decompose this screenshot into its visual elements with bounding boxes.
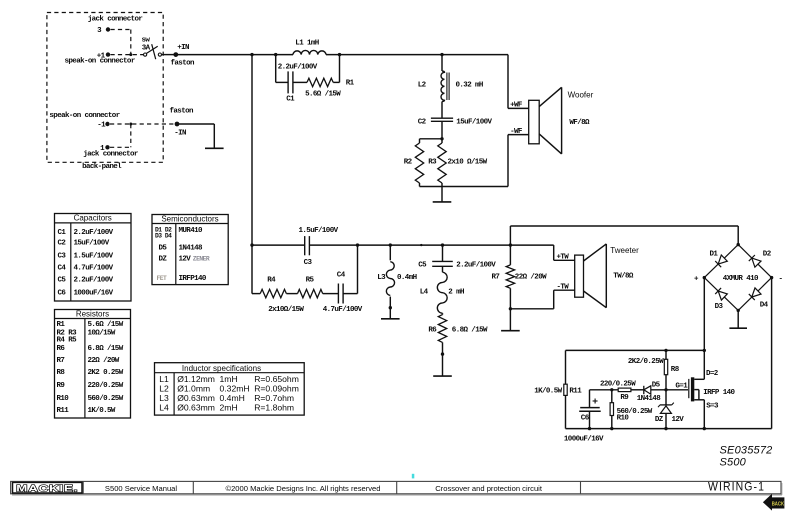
svg-text:SE035572: SE035572 bbox=[720, 444, 773, 456]
svg-text:R11: R11 bbox=[57, 407, 70, 415]
svg-text:R4: R4 bbox=[267, 277, 276, 285]
svg-text:-WF: -WF bbox=[510, 128, 523, 136]
svg-text:speak-on connector: speak-on connector bbox=[65, 58, 135, 66]
svg-text:MACKIE.: MACKIE. bbox=[16, 484, 78, 495]
svg-text:IRFP 140: IRFP 140 bbox=[703, 389, 735, 397]
svg-text:-TW: -TW bbox=[557, 283, 570, 291]
svg-text:MUR410: MUR410 bbox=[179, 227, 204, 235]
svg-text:G=1: G=1 bbox=[675, 383, 688, 391]
svg-text:L1 1mH: L1 1mH bbox=[295, 40, 319, 48]
svg-text:C5: C5 bbox=[418, 262, 427, 270]
svg-text:0.32 mH: 0.32 mH bbox=[456, 82, 483, 90]
svg-text:+IN: +IN bbox=[177, 44, 189, 52]
svg-text:R7: R7 bbox=[57, 357, 65, 365]
svg-text:jack connector: jack connector bbox=[83, 150, 138, 158]
svg-text:2x10Ω/15W: 2x10Ω/15W bbox=[268, 306, 304, 314]
svg-text:C3: C3 bbox=[304, 259, 313, 267]
svg-text:-: - bbox=[779, 275, 783, 283]
svg-text:R5: R5 bbox=[306, 277, 315, 285]
svg-text:Crossover and protection circu: Crossover and protection circuit bbox=[435, 484, 543, 493]
svg-text:DZ: DZ bbox=[159, 256, 168, 264]
svg-text:2x10 Ω/15W: 2x10 Ω/15W bbox=[448, 159, 488, 167]
svg-text:C2: C2 bbox=[58, 240, 67, 248]
svg-text:C3: C3 bbox=[58, 253, 67, 261]
svg-text:0.4mH: 0.4mH bbox=[397, 274, 417, 282]
svg-text:L4: L4 bbox=[159, 402, 169, 412]
svg-text:2K2/0.25W: 2K2/0.25W bbox=[628, 358, 664, 366]
svg-text:3A: 3A bbox=[142, 44, 151, 52]
svg-text:WF/8Ω: WF/8Ω bbox=[569, 119, 590, 127]
svg-text:C4: C4 bbox=[337, 272, 346, 280]
svg-text:2 mH: 2 mH bbox=[448, 289, 464, 297]
svg-text:R9: R9 bbox=[620, 394, 629, 402]
svg-text:R=1.8ohm: R=1.8ohm bbox=[254, 402, 294, 412]
svg-text:1N4148: 1N4148 bbox=[637, 395, 662, 403]
svg-text:C2: C2 bbox=[418, 118, 427, 126]
svg-text:BACK: BACK bbox=[772, 501, 785, 507]
svg-text:faston: faston bbox=[171, 59, 196, 67]
svg-text:S=3: S=3 bbox=[706, 402, 719, 410]
svg-text:Woofer: Woofer bbox=[568, 91, 594, 100]
svg-text:-IN: -IN bbox=[174, 130, 186, 138]
svg-text:Tweeter: Tweeter bbox=[610, 246, 639, 255]
svg-text:C6: C6 bbox=[581, 414, 590, 422]
svg-text:D1: D1 bbox=[710, 251, 719, 259]
svg-text:C6: C6 bbox=[58, 289, 67, 297]
svg-text:L2: L2 bbox=[159, 383, 169, 393]
svg-text:Ø0.63mm: Ø0.63mm bbox=[177, 402, 215, 412]
svg-text:Inductor specifications: Inductor specifications bbox=[182, 364, 261, 373]
svg-text:R4 R5: R4 R5 bbox=[57, 336, 78, 344]
svg-text:560/0.25W: 560/0.25W bbox=[88, 395, 124, 403]
svg-text:4XMUR 410: 4XMUR 410 bbox=[723, 275, 759, 283]
svg-text:-1: -1 bbox=[97, 122, 106, 130]
svg-text:R7: R7 bbox=[491, 273, 499, 281]
svg-text:Semiconductors: Semiconductors bbox=[161, 215, 218, 224]
svg-text:1000uF/16V: 1000uF/16V bbox=[74, 289, 114, 297]
svg-text:R3: R3 bbox=[428, 159, 437, 167]
svg-text:220/0.25W: 220/0.25W bbox=[600, 381, 636, 389]
svg-text:12V: 12V bbox=[672, 416, 685, 424]
svg-text:D5: D5 bbox=[159, 244, 168, 252]
svg-text:FET: FET bbox=[157, 275, 168, 282]
svg-text:1.5uF/100V: 1.5uF/100V bbox=[74, 253, 114, 261]
svg-text:D3 D4: D3 D4 bbox=[155, 232, 172, 239]
svg-text:speak-on connector: speak-on connector bbox=[49, 112, 119, 120]
svg-text:D=2: D=2 bbox=[706, 370, 719, 378]
svg-text:D3: D3 bbox=[715, 303, 724, 311]
svg-text:TW/8Ω: TW/8Ω bbox=[613, 272, 634, 280]
svg-text:faston: faston bbox=[170, 108, 195, 116]
svg-text:R8: R8 bbox=[57, 369, 66, 377]
svg-text:220/0.25W: 220/0.25W bbox=[88, 382, 124, 390]
svg-text:1.5uF/100V: 1.5uF/100V bbox=[299, 227, 339, 235]
svg-text:ZENER: ZENER bbox=[193, 256, 210, 263]
svg-text:2.2uF/100V: 2.2uF/100V bbox=[278, 63, 318, 71]
svg-text:R10: R10 bbox=[617, 415, 630, 423]
svg-text:2K2 0.25W: 2K2 0.25W bbox=[88, 369, 124, 377]
svg-text:1K/0.5W: 1K/0.5W bbox=[88, 407, 116, 415]
svg-text:C1: C1 bbox=[58, 229, 67, 237]
svg-text:IRFP140: IRFP140 bbox=[179, 275, 207, 283]
svg-text:4.7uF/100V: 4.7uF/100V bbox=[74, 265, 114, 273]
svg-text:DZ: DZ bbox=[655, 416, 664, 424]
svg-text:S500 Service Manual: S500 Service Manual bbox=[105, 484, 177, 493]
svg-text:WIRING-1: WIRING-1 bbox=[708, 482, 765, 494]
svg-text:6.8Ω /15W: 6.8Ω /15W bbox=[452, 327, 488, 335]
svg-text:R8: R8 bbox=[671, 366, 680, 374]
svg-text:L3: L3 bbox=[377, 274, 386, 282]
svg-text:R1: R1 bbox=[57, 321, 66, 329]
svg-text:R10: R10 bbox=[57, 395, 70, 403]
svg-text:jack connector: jack connector bbox=[88, 16, 143, 24]
svg-text:0.32mH: 0.32mH bbox=[220, 383, 250, 393]
svg-text:10Ω/15W: 10Ω/15W bbox=[88, 329, 116, 337]
svg-text:Capacitors: Capacitors bbox=[74, 214, 112, 223]
svg-text:R1: R1 bbox=[346, 79, 355, 87]
svg-text:©2000 Mackie Designs Inc. All: ©2000 Mackie Designs Inc. All rights res… bbox=[225, 484, 380, 493]
svg-text:R9: R9 bbox=[57, 382, 66, 390]
svg-text:R=0.09ohm: R=0.09ohm bbox=[254, 383, 299, 393]
svg-text:22Ω /20W: 22Ω /20W bbox=[515, 273, 547, 281]
svg-text:1K/0.5W: 1K/0.5W bbox=[534, 388, 562, 396]
svg-text:R6: R6 bbox=[57, 345, 66, 353]
svg-text:2mH: 2mH bbox=[220, 402, 238, 412]
svg-text:Ø1.0mm: Ø1.0mm bbox=[177, 383, 210, 393]
svg-text:+WF: +WF bbox=[510, 102, 523, 110]
svg-text:2.2uF/100V: 2.2uF/100V bbox=[456, 262, 496, 270]
svg-text:Resistors: Resistors bbox=[76, 310, 109, 319]
svg-text:S500: S500 bbox=[720, 457, 747, 469]
svg-text:5.6Ω /15W: 5.6Ω /15W bbox=[88, 321, 124, 329]
svg-text:15uF/100V: 15uF/100V bbox=[456, 118, 492, 126]
svg-text:6.8Ω /15W: 6.8Ω /15W bbox=[88, 345, 124, 353]
svg-text:2.2uF/100V: 2.2uF/100V bbox=[74, 276, 114, 284]
svg-text:1N4148: 1N4148 bbox=[179, 244, 204, 252]
svg-text:R11: R11 bbox=[569, 388, 582, 396]
svg-text:2.2uF/100V: 2.2uF/100V bbox=[74, 229, 114, 237]
svg-text:C5: C5 bbox=[58, 276, 67, 284]
svg-text:D5: D5 bbox=[652, 382, 661, 390]
svg-text:R6: R6 bbox=[428, 327, 437, 335]
svg-text:1000uF/16V: 1000uF/16V bbox=[564, 435, 604, 443]
svg-text:D2: D2 bbox=[763, 251, 772, 259]
svg-text:R2: R2 bbox=[404, 159, 413, 167]
svg-text:5.6Ω /15W: 5.6Ω /15W bbox=[305, 91, 341, 99]
svg-text:C4: C4 bbox=[58, 265, 67, 273]
svg-text:D4: D4 bbox=[760, 302, 769, 310]
svg-text:12V: 12V bbox=[179, 256, 192, 264]
svg-text:sw: sw bbox=[141, 36, 150, 44]
svg-text:22Ω /20W: 22Ω /20W bbox=[88, 357, 120, 365]
svg-text:C1: C1 bbox=[286, 96, 295, 104]
svg-text:L4: L4 bbox=[420, 289, 429, 297]
svg-text:+TW: +TW bbox=[557, 253, 570, 261]
svg-text:15uF/100V: 15uF/100V bbox=[74, 240, 110, 248]
svg-text:4.7uF/100V: 4.7uF/100V bbox=[323, 306, 363, 314]
svg-text:L2: L2 bbox=[418, 82, 427, 90]
svg-text:back-panel: back-panel bbox=[82, 163, 122, 171]
